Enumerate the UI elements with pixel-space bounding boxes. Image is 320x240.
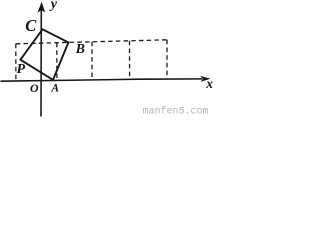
dashed vertical 5 <box>166 40 168 79</box>
dashed vertical 3 <box>91 42 93 80</box>
dashed vertical 4 <box>129 41 131 79</box>
svg-text:O: O <box>30 81 39 95</box>
svg-text:P: P <box>17 62 26 77</box>
dashed vertical 2 <box>56 43 58 80</box>
svg-text:B: B <box>75 42 85 57</box>
svg-text:A: A <box>50 83 59 95</box>
svg-text:manfen5.com: manfen5.com <box>143 106 209 118</box>
y-axis <box>38 2 46 117</box>
dashed vertical 1 <box>15 44 17 80</box>
svg-text:y: y <box>49 0 58 12</box>
dashed top line <box>16 40 167 44</box>
x-axis <box>1 76 211 82</box>
svg-text:x: x <box>205 76 213 91</box>
svg-text:C: C <box>25 16 37 35</box>
square PABC (solid, tilted) <box>20 29 68 80</box>
